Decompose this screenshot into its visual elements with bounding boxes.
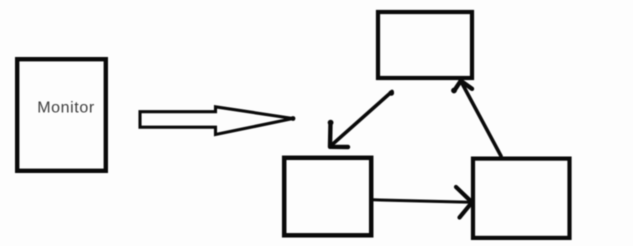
bottom-left box: [284, 158, 371, 236]
bottom-right box: [473, 159, 570, 238]
arrow top box to bottom-left box: shaft: [330, 92, 392, 147]
arrow bottom-right to top box: head barbs: [454, 81, 472, 91]
arrow bottom-left to bottom-right: shaft: [373, 200, 471, 203]
top box: [378, 12, 472, 78]
arrow bottom-right to top box: shaft: [461, 81, 502, 157]
arrow bottom-left to bottom-right: head barbs: [456, 187, 472, 218]
svg-text:Monitor: Monitor: [37, 100, 95, 117]
arrow top box to bottom-left box: head barbs: [330, 123, 348, 148]
monitor box: [17, 59, 106, 171]
block arrow tip knob: [291, 116, 296, 121]
arrow start knob: [389, 90, 395, 96]
block arrow: [140, 107, 293, 135]
barb knob top: [328, 120, 334, 126]
barb knob left: [451, 88, 457, 94]
